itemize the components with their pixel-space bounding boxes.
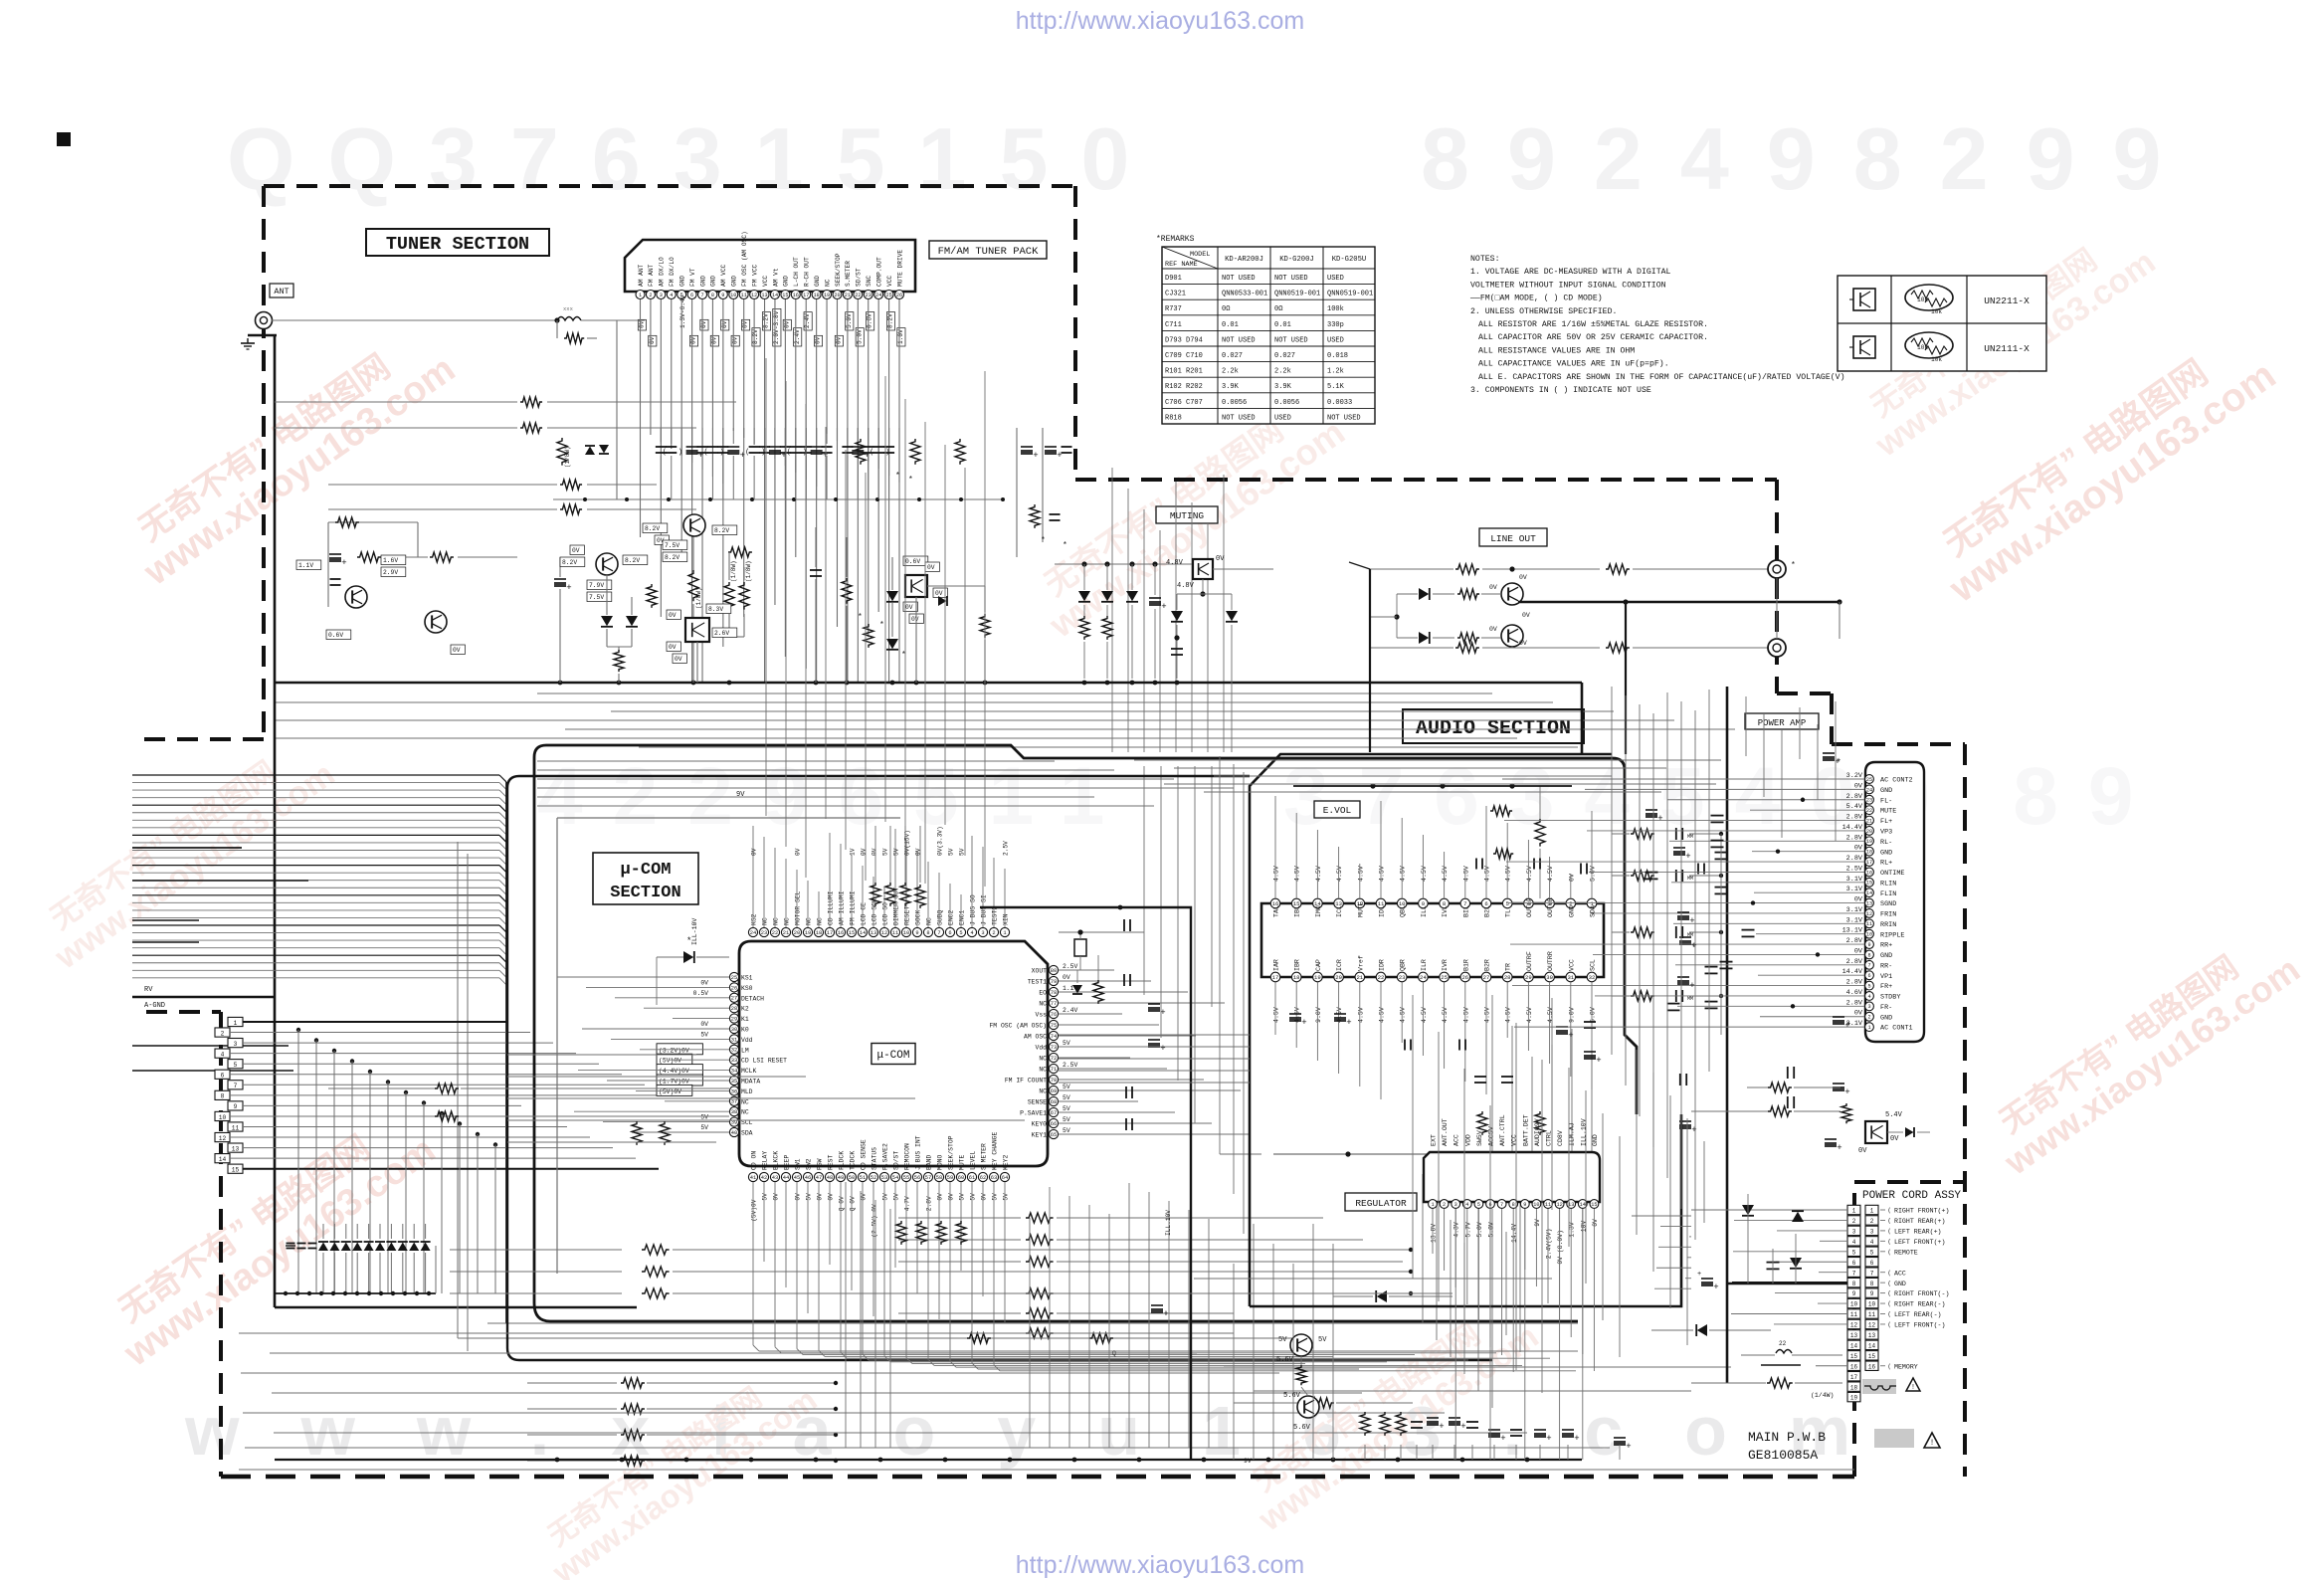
svg-text:3.9K: 3.9K [1222,383,1240,391]
svg-text:GND: GND [1880,787,1892,795]
svg-text:330p: 330p [1327,321,1344,329]
svg-text:LINE OUT: LINE OUT [1490,533,1536,544]
svg-text:5.0V: 5.0V [1488,1222,1495,1238]
svg-text:10: 10 [730,293,736,298]
svg-text:5V: 5V [959,1193,966,1201]
svg-text:1: 1 [1867,1025,1870,1031]
svg-text:FM ILLUMI: FM ILLUMI [850,890,857,925]
svg-text:15: 15 [1850,1353,1858,1360]
svg-text:22: 22 [855,293,861,298]
svg-text:0V: 0V [937,1193,944,1201]
svg-text:(: ( [870,449,873,457]
svg-text:0V: 0V [700,320,707,328]
svg-text:GND: GND [1592,1134,1599,1146]
svg-text:7.5V: 7.5V [589,594,604,601]
svg-text:MM: MM [1687,996,1693,1002]
svg-text:0Ω: 0Ω [1222,305,1230,313]
svg-text:5V: 5V [992,1193,999,1201]
svg-text:28: 28 [1504,974,1511,981]
svg-text:0V: 0V [751,848,758,856]
svg-text:15: 15 [1868,1353,1876,1360]
svg-text:KEY2: KEY2 [1003,1154,1010,1170]
svg-text:ACC: ACC [1894,1270,1906,1277]
svg-text:0V: 0V [453,647,461,654]
svg-text:8.3V: 8.3V [708,606,723,613]
svg-text:SW5V: SW5V [1476,1130,1483,1146]
svg-text:(1/4W): (1/4W) [1811,1392,1834,1399]
svg-text:IMO: IMO [1315,905,1322,917]
svg-text:21: 21 [1866,818,1872,824]
svg-text:NC: NC [1039,1056,1047,1063]
svg-text:IDL: IDL [1379,905,1386,917]
svg-text:0.0056: 0.0056 [1222,399,1247,407]
wires bottom-right loom [1551,1045,1553,1210]
svg-text:(3.2V)0V: (3.2V)0V [659,1047,689,1054]
svg-text:1.6V: 1.6V [383,557,398,564]
svg-text:8.2V: 8.2V [887,313,894,328]
svg-text:0V: 0V [731,336,738,344]
svg-text:AM Vt: AM Vt [772,268,779,287]
feeders from uCOM to audio [1059,1034,1250,1036]
svg-text:0V: 0V [795,1193,802,1201]
svg-text:3: 3 [660,293,663,298]
svg-text:(: ( [787,449,791,457]
svg-text:EXT: EXT [1431,1134,1438,1146]
svg-text:UN2111-X: UN2111-X [1984,343,2030,354]
regulator pins 1-15 [1429,1200,1438,1209]
connector CN101 pins 1-15 [228,1017,243,1026]
svg-text:10: 10 [1850,1301,1858,1308]
audio top horizontal feeders [1134,759,1721,761]
svg-text:4.5V: 4.5V [1357,866,1364,882]
svg-text:2: 2 [221,1030,225,1037]
svg-text:(4.4V)0V: (4.4V)0V [659,1068,689,1075]
svg-text:14: 14 [219,1156,227,1163]
bottom heavy bus [275,1459,1582,1461]
svg-text:⟨: ⟨ [1887,1290,1891,1297]
svg-text:12: 12 [881,930,887,936]
svg-text:2.5V: 2.5V [1063,1062,1078,1069]
main board dashed border [146,1012,221,1477]
svg-text:4.5V: 4.5V [1442,1007,1449,1023]
svg-text:MUTE: MUTE [1357,901,1364,917]
svg-text:BEEP: BEEP [784,1154,791,1170]
svg-text:ANT.OUT: ANT.OUT [1442,1118,1449,1146]
svg-text:*REMARKS: *REMARKS [1156,235,1195,244]
svg-text:(1/8W): (1/8W) [695,587,702,609]
svg-text:!: ! [1911,1384,1915,1392]
svg-text:64: 64 [1002,1175,1008,1181]
svg-text:FR-: FR- [1880,1004,1892,1012]
svg-text:11: 11 [741,293,747,298]
svg-text:9V: 9V [736,791,745,799]
svg-text:7: 7 [1870,1270,1874,1277]
svg-text:CD ON: CD ON [751,1151,758,1170]
svg-text:11: 11 [1866,921,1872,927]
svg-text:2.4V: 2.4V [1063,1007,1078,1014]
svg-text:GND: GND [1880,952,1892,960]
svg-text:2: 2 [1870,1218,1874,1225]
svg-text:20: 20 [1866,829,1872,835]
svg-text:23: 23 [1399,974,1406,981]
svg-text:5V: 5V [882,1193,889,1201]
svg-text:25: 25 [885,293,891,298]
svg-text:5.6V: 5.6V [1276,1356,1294,1364]
svg-text:+: + [1596,1056,1601,1066]
svg-text:BLKCK: BLKCK [773,1151,780,1170]
svg-text:C711: C711 [1165,321,1182,329]
svg-text:LCD CE: LCD CE [861,902,868,925]
label ANT [270,284,293,297]
wire: bundle spur stubs [132,847,242,849]
svg-text:16: 16 [1868,1363,1876,1370]
svg-text:8: 8 [1852,1281,1856,1287]
svg-text:49: 49 [838,1175,844,1181]
svg-text:78: 78 [1051,990,1057,996]
svg-text:0V: 0V [572,547,580,554]
transistor box Q705 [685,618,709,642]
svg-text:5V: 5V [1318,1336,1327,1344]
svg-text:14: 14 [1866,890,1872,896]
diode D707 [938,596,947,606]
warning triangle 2 [1924,1433,1940,1448]
svg-text:54: 54 [892,1175,898,1181]
svg-text:SDA: SDA [741,1130,753,1137]
svg-text:2.4V: 2.4V [804,313,811,328]
svg-text:13: 13 [1850,1332,1858,1339]
svg-text:29: 29 [1525,974,1532,981]
svg-text:0V: 0V [690,336,697,344]
power amp pins 25..1 [1865,775,1874,784]
svg-text:14: 14 [860,930,866,936]
svg-text:R818: R818 [1165,414,1182,422]
svg-text:POWER AMP: POWER AMP [1758,718,1807,728]
svg-text:1: 1 [234,1020,238,1027]
svg-text:RV: RV [144,986,153,994]
svg-text:QNN0519-001: QNN0519-001 [1274,291,1320,298]
label E.VOL [1314,801,1360,818]
svg-text:RIGHT REAR(-): RIGHT REAR(-) [1894,1301,1945,1308]
svg-text:68: 68 [1051,1099,1057,1105]
u-COM left pins 25-40 [729,972,738,981]
svg-text:35: 35 [731,1079,737,1085]
RCA jack R [1768,639,1786,657]
svg-text:8.2V: 8.2V [752,329,759,344]
svg-text:0V: 0V [773,1193,780,1201]
resistors above u-COM [871,883,880,906]
svg-text:GND: GND [1894,1281,1906,1287]
svg-text:4.5V: 4.5V [1484,866,1491,882]
svg-text:10: 10 [903,930,909,936]
svg-text:TCDCK: TCDCK [850,1151,857,1170]
svg-text:79: 79 [1051,979,1057,985]
svg-text:7.5V: 7.5V [665,542,679,549]
svg-text:42296511: 42296511 [537,751,1134,842]
svg-text:CD8V: CD8V [1557,1130,1564,1146]
svg-text:RL+: RL+ [1880,860,1892,868]
svg-text:+: + [1689,981,1694,991]
wire RV bus [132,996,275,998]
svg-text:TL: TL [1505,909,1512,917]
svg-text:(: ( [745,449,749,457]
svg-text:ALL E. CAPACITORS ARE SHOWN IN: ALL E. CAPACITORS ARE SHOWN IN THE FORM … [1478,372,1845,382]
svg-text:0V: 0V [1063,974,1070,981]
svg-text:72: 72 [1051,1056,1057,1062]
svg-text:SEEK/STOP: SEEK/STOP [948,1135,955,1170]
svg-text:5V: 5V [893,848,900,856]
regulator-area e-cap [1151,1304,1163,1306]
svg-text:AC CONT2: AC CONT2 [1880,777,1913,785]
wire: horizontal gray feeders tuner [275,401,517,403]
svg-text:66: 66 [1051,1121,1057,1127]
svg-text:GND: GND [1880,849,1892,857]
diode D705 [886,591,898,601]
svg-text:1.2k: 1.2k [1327,368,1344,376]
svg-text:12: 12 [1866,911,1872,917]
svg-text:7: 7 [1500,1202,1503,1208]
svg-text:CAP: CAP [1315,959,1322,971]
svg-text:33: 33 [731,1058,737,1064]
svg-text:SDA: SDA [1590,905,1597,917]
diode D905 [1792,1212,1804,1222]
vertical bus x509 [505,782,507,1323]
u-COM top pins 24..1 [748,927,757,936]
resistor R901 [1296,1365,1306,1385]
svg-text:19: 19 [1866,839,1872,845]
wire bundle: left harness horizontals [132,774,499,776]
svg-text:1.3V: 1.3V [1569,1222,1576,1238]
resistor pair horizontal [967,1333,991,1343]
tuner pack pin voltage labels [638,319,646,330]
svg-text:K1: K1 [741,1016,749,1023]
IC regulator body [1424,1152,1600,1202]
svg-text:0V: 0V [700,979,708,986]
svg-text:10k: 10k [1917,296,1928,303]
svg-text:TAL: TAL [1273,905,1280,917]
svg-text:6: 6 [1870,1260,1874,1267]
svg-text:8: 8 [1870,1281,1874,1287]
svg-text:KD-AR200J: KD-AR200J [1225,256,1263,264]
svg-text:0V: 0V [828,1193,835,1201]
svg-text:27: 27 [1483,974,1490,981]
svg-text:www.xiaoyu163.com: www.xiaoyu163.com [184,1392,1912,1470]
svg-text:0V: 0V [1519,640,1527,647]
svg-text:18: 18 [1293,974,1300,981]
wire: tuner bottom thick bus [275,682,1582,685]
svg-text:KEY CHANGE: KEY CHANGE [992,1131,999,1170]
svg-text:0V: 0V [935,590,943,597]
svg-text:K2: K2 [741,1006,749,1013]
svg-text:5: 5 [1852,1249,1856,1256]
svg-text:43: 43 [772,1175,778,1181]
svg-text:10k: 10k [1931,356,1942,363]
svg-text:NOT USED: NOT USED [1222,414,1256,422]
svg-text:RESET: RESET [904,906,911,925]
svg-text:8.2V: 8.2V [645,525,660,532]
svg-text:AM ANT: AM ANT [638,264,645,287]
svg-text:14: 14 [1868,1342,1876,1349]
svg-text:1: 1 [1852,1208,1856,1215]
svg-text:7.9V: 7.9V [589,582,604,589]
svg-text:(1/8W): (1/8W) [564,446,571,468]
svg-text:⟨: ⟨ [1887,1363,1891,1370]
svg-text:*: * [858,613,863,622]
svg-text:R737: R737 [1165,305,1182,313]
svg-text:FLDCK: FLDCK [839,1151,846,1170]
svg-text:B1R: B1R [1462,959,1469,971]
svg-text:REF NAME: REF NAME [1165,261,1198,269]
svg-text:4.5V: 4.5V [1547,866,1554,882]
svg-text:1: 1 [1870,1208,1874,1215]
svg-text:KEY0: KEY0 [1032,1121,1048,1128]
svg-text:*: * [1791,561,1796,570]
svg-text:REMOCON: REMOCON [904,1143,911,1170]
GND heavy node [1727,1283,1847,1285]
svg-text:4.5V: 4.5V [1421,1007,1428,1023]
svg-text:SNC: SNC [866,276,872,287]
svg-text:0V: 0V [817,1193,824,1201]
svg-text:59: 59 [947,1175,953,1181]
svg-text:6: 6 [690,293,693,298]
svg-text:S METER: S METER [981,1143,988,1170]
power amp side caps [1823,752,1835,754]
bottom filter caps [1360,1412,1370,1436]
svg-text:L-CH OUT: L-CH OUT [793,257,800,287]
svg-text:10: 10 [1866,932,1872,938]
svg-text:12: 12 [751,293,757,298]
svg-text:(5V)0V: (5V)0V [751,1199,758,1222]
label LINE OUT [1479,528,1547,546]
svg-text:ACC: ACC [1453,1134,1460,1146]
svg-text:31: 31 [1567,974,1574,981]
tuner right cap cluster [1016,428,1018,557]
svg-text:!: ! [1930,1439,1935,1448]
svg-text:2.2k: 2.2k [1274,368,1291,376]
svg-text:C706 C707: C706 C707 [1165,399,1203,407]
svg-text:4.5V: 4.5V [1505,866,1512,882]
svg-text:2: 2 [1867,1015,1870,1021]
svg-text:22: 22 [1378,974,1385,981]
svg-text:OUTLR: OUTLR [1547,897,1554,917]
svg-text:9: 9 [1870,1290,1874,1297]
svg-text:21: 21 [1356,974,1363,981]
svg-text:76: 76 [1051,1012,1057,1018]
svg-text:80: 80 [1051,968,1057,974]
svg-text:NOT USED: NOT USED [1222,275,1256,283]
svg-text:Q 0V: Q 0V [839,1196,846,1211]
svg-text:http://www.xiaoyu163.com: http://www.xiaoyu163.com [1016,1551,1304,1579]
svg-text:61: 61 [969,1175,975,1181]
svg-text:8: 8 [711,293,714,298]
svg-text:NOT USED: NOT USED [1274,336,1308,344]
svg-text:0.6V: 0.6V [905,558,920,565]
svg-text:5.6V: 5.6V [1283,1392,1301,1400]
svg-text:FM ANT: FM ANT [648,264,655,287]
svg-text:18: 18 [816,930,822,936]
svg-text:74: 74 [1051,1034,1057,1040]
svg-text:RR+: RR+ [1880,942,1892,950]
svg-text:AC CONT1: AC CONT1 [1880,1025,1913,1033]
svg-text:5V: 5V [1063,1094,1070,1101]
svg-text:MM: MM [1687,834,1693,840]
svg-text:5V: 5V [762,1193,769,1201]
svg-text:0V: 0V [835,336,842,344]
svg-text:38: 38 [731,1109,737,1115]
svg-text:⟨: ⟨ [1887,1208,1891,1215]
ground (antenna) [248,334,277,336]
diode D903 [1377,1290,1387,1302]
svg-text:17: 17 [1850,1374,1858,1381]
svg-text:8.2V: 8.2V [665,554,679,561]
svg-text:+: + [1691,1125,1696,1135]
RCA jack L [1768,560,1786,578]
svg-text:0V: 0V [721,320,728,328]
svg-text:⟨: ⟨ [1887,1301,1891,1308]
svg-text:13: 13 [761,293,767,298]
transistor Q701 [345,586,367,608]
svg-text:QQ376315150: QQ376315150 [227,109,1162,208]
svg-text:0.0033: 0.0033 [1327,399,1352,407]
svg-text:4: 4 [970,930,973,936]
svg-text:4.5V: 4.5V [1526,1007,1533,1023]
svg-text:4.5V: 4.5V [1273,866,1280,882]
svg-text:4.5V: 4.5V [1462,1007,1469,1023]
diode D904 [1697,1324,1707,1336]
diode D303 (zener) [1126,591,1138,601]
svg-text:0V: 0V [871,848,878,856]
svg-text:14: 14 [1850,1342,1858,1349]
svg-text:4: 4 [221,1051,225,1058]
svg-text:——FM(□AM MODE, ( ) CD MODE): ——FM(□AM MODE, ( ) CD MODE) [1469,294,1603,303]
svg-text:15: 15 [782,293,788,298]
svg-text:XIN: XIN [1003,913,1010,925]
svg-text:⟨: ⟨ [1887,1249,1891,1256]
key matrix bottom bus [275,1292,436,1294]
svg-text:4.7V: 4.7V [904,1196,911,1211]
svg-text:⟨: ⟨ [1887,1270,1891,1277]
svg-text:51: 51 [860,1175,866,1181]
svg-text:10k: 10k [1931,308,1942,315]
svg-text:9: 9 [1852,1290,1856,1297]
svg-text:12: 12 [219,1135,227,1142]
svg-text:30: 30 [731,1027,737,1033]
svg-text:71: 71 [1051,1067,1057,1073]
svg-text:QNN0519-001: QNN0519-001 [1327,291,1373,298]
svg-text:P.SAVE2: P.SAVE2 [882,1143,889,1170]
svg-text:OUTRF: OUTRF [1526,951,1533,971]
diodes under Q703 [601,616,613,626]
svg-text:NC: NC [1039,1067,1047,1074]
E.VOL top pins 16..1 [1270,898,1280,908]
svg-text:24: 24 [1420,974,1427,981]
svg-text:VP1: VP1 [1880,973,1892,981]
svg-text:ILL: ILL [1421,905,1428,917]
svg-text:*: * [1063,541,1067,550]
svg-text:XOUT: XOUT [1032,968,1048,975]
svg-text:+: + [1346,1018,1351,1028]
svg-text:GND: GND [1880,1014,1892,1022]
svg-text:3: 3 [1454,1202,1457,1208]
svg-text:4.5V: 4.5V [1336,866,1343,882]
svg-text:MUTING: MUTING [1170,510,1205,521]
svg-text:+: + [1301,1018,1306,1028]
svg-text:16: 16 [838,930,844,936]
svg-text:ENC1: ENC1 [959,909,966,925]
svg-text:REST: REST [828,1154,835,1170]
svg-text:6: 6 [1852,1260,1856,1267]
svg-text:CD SENSE: CD SENSE [861,1139,868,1170]
svg-text:0V: 0V [1489,584,1497,591]
